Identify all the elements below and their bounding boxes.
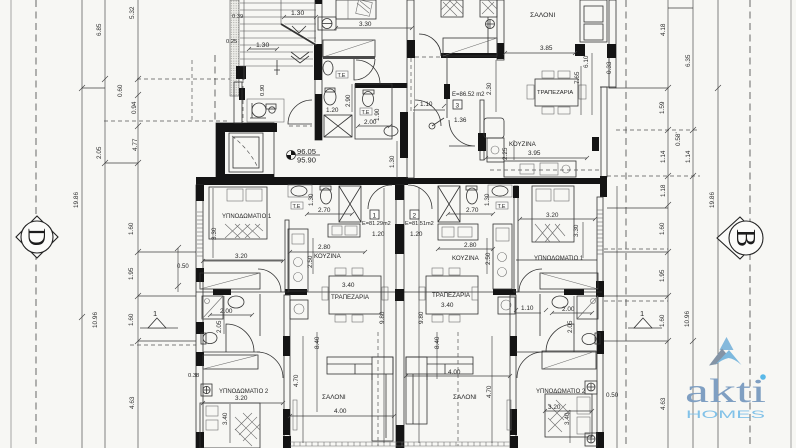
lower-right wardrobe side <box>585 381 597 394</box>
top-left unit bath fixtures <box>318 17 336 30</box>
svg-text:0.58': 0.58' <box>675 132 682 146</box>
svg-text:3.40: 3.40 <box>441 302 454 309</box>
svg-text:3.95: 3.95 <box>528 150 541 157</box>
level marker 96.05 <box>287 147 321 165</box>
wall bed2 right top <box>516 351 597 353</box>
dim vline 3.30 left <box>212 188 214 258</box>
node right dashed centerline <box>749 0 751 448</box>
wc1 sink <box>323 61 333 75</box>
party wall dashed opening <box>408 58 415 112</box>
upper kitchen counter horizontal <box>504 161 576 177</box>
wire left offset 0.50 line <box>177 248 179 292</box>
lower-left stove <box>290 300 308 319</box>
svg-text:3.40: 3.40 <box>222 412 229 425</box>
svg-text:1.59: 1.59 <box>659 101 666 114</box>
wheelchair symbol <box>250 103 276 118</box>
wall black party lower c <box>395 289 404 301</box>
svg-text:T.E: T.E <box>293 204 301 210</box>
lower-right bath toilet2 <box>582 333 600 345</box>
top mid bed2 hatched <box>480 0 497 17</box>
wire dashed axis top-left <box>137 78 244 80</box>
wall lower interior right vertical <box>510 295 516 448</box>
svg-text:2.80: 2.80 <box>464 242 477 249</box>
door arc lower-left bath <box>258 269 281 292</box>
lower-right bed1 <box>532 186 574 242</box>
door arc bed2 left <box>257 352 283 378</box>
svg-text:4.63: 4.63 <box>129 396 136 409</box>
lower-right toilet <box>466 186 478 204</box>
svg-text:T.E: T.E <box>362 110 370 116</box>
wire dashed axis right y176 <box>607 175 700 177</box>
lower-left shaft <box>339 186 361 222</box>
dim 2.70 left <box>307 207 352 214</box>
dashed threshold <box>289 125 312 127</box>
svg-text:akti: akti <box>685 373 766 410</box>
dim 8.40 right <box>434 332 441 379</box>
wall party upper double <box>407 0 414 178</box>
svg-text:0.50: 0.50 <box>177 264 189 270</box>
svg-text:2.50: 2.50 <box>307 255 314 268</box>
dim vline 2.25 upper <box>513 140 515 160</box>
svg-text:ΚΟΥΖΙΝΑ: ΚΟΥΖΙΝΑ <box>314 253 342 260</box>
marker B right <box>717 217 763 259</box>
wire left dim line 19.86 <box>81 0 83 448</box>
wall top mid bath right <box>497 0 504 60</box>
wire left dim line 6.85 <box>104 0 106 448</box>
stair landing rail <box>274 60 280 75</box>
top mid fixture circle cross <box>486 20 495 29</box>
svg-text:1.14: 1.14 <box>685 150 692 163</box>
wall black top mid <box>497 43 504 59</box>
dim vline 6.10 upper <box>591 53 593 115</box>
wall black wc2 top <box>355 83 412 88</box>
dim 2.80 left <box>290 244 365 252</box>
svg-text:4.70: 4.70 <box>486 385 493 398</box>
wall black lower right vb <box>510 409 517 435</box>
wall black elevator top <box>216 123 277 132</box>
stair arrow up <box>281 24 316 45</box>
svg-text:0.25: 0.25 <box>226 39 237 45</box>
door arc wc disabled <box>288 100 312 124</box>
svg-text:T.E: T.E <box>498 204 506 210</box>
door arc lower-left entry <box>368 185 392 209</box>
wall stair left textured strip <box>230 0 239 96</box>
svg-text:95.90: 95.90 <box>297 156 316 165</box>
svg-text:1.30: 1.30 <box>308 193 315 206</box>
svg-text:1.95: 1.95 <box>128 267 135 280</box>
svg-text:2.25: 2.25 <box>502 147 509 160</box>
wall bath left divider <box>259 294 261 336</box>
wall black elevator bottom <box>216 174 274 182</box>
door arc bed2 right <box>517 352 543 378</box>
dim 2.80 right <box>438 242 493 249</box>
wire dashed balcony edge top-left <box>242 79 244 122</box>
upper unit door arc2 <box>449 120 475 146</box>
elevator cab <box>229 133 263 172</box>
door arc lower-right bath <box>519 269 542 292</box>
wall top mid bottom black <box>441 53 503 58</box>
wire right dim line 6.35 <box>692 0 694 448</box>
svg-text:0.38: 0.38 <box>188 373 199 379</box>
wall elevator outline <box>216 123 274 182</box>
svg-text:1.10: 1.10 <box>521 305 534 312</box>
svg-text:1.14: 1.14 <box>660 150 667 163</box>
upper kitchen counter vertical <box>484 118 504 162</box>
upper unit door arc entry <box>415 100 441 126</box>
dim vline 2.90 wc <box>351 84 353 112</box>
top mid bed hatched <box>441 0 463 17</box>
wc2 te box <box>360 108 372 116</box>
top-left unit bed <box>336 0 376 19</box>
lower-left toilet <box>320 186 332 204</box>
svg-text:19.86: 19.86 <box>709 192 716 208</box>
lower-left bath toilet2 <box>201 333 217 345</box>
wall lower bath horizontal <box>196 291 602 293</box>
svg-text:8.40: 8.40 <box>314 336 321 349</box>
svg-text:1.30: 1.30 <box>256 42 269 49</box>
dim 8.40 left <box>314 332 321 412</box>
lower-left sofa L <box>327 357 393 441</box>
svg-text:2.05: 2.05 <box>216 320 223 333</box>
dim vline 9.80 left <box>383 188 385 443</box>
wall niche line <box>487 17 489 53</box>
dim vline 2.50 right <box>486 238 488 274</box>
wall black party lower d <box>396 425 404 448</box>
lower-right stove <box>498 297 515 314</box>
wire extension lines left <box>82 88 196 341</box>
lower-right kitchen top <box>438 224 478 240</box>
svg-text:3.85: 3.85 <box>540 45 553 52</box>
dim vline 3.30 right <box>582 222 584 258</box>
dim 1.10 right bath <box>516 305 541 313</box>
lower-left kitchen counter <box>288 229 308 291</box>
node dashed axis right salon <box>457 332 459 446</box>
dim 3.20 bed2 left <box>203 395 283 403</box>
dim 2.00 right bath <box>552 306 592 313</box>
lower-right te <box>496 202 508 210</box>
wall right edge lower <box>597 197 603 448</box>
wc1 shaft <box>324 115 352 137</box>
svg-text:3.40: 3.40 <box>342 282 355 289</box>
wall black seg stair right c <box>315 94 322 140</box>
wall main horizontal black band <box>196 177 408 185</box>
door arc right bath inner <box>546 324 574 352</box>
lower-right dining table <box>419 268 478 322</box>
wall black lower left vb <box>283 409 290 435</box>
lower-right sofa L <box>406 357 473 424</box>
wall black left lower d <box>196 352 204 366</box>
dim vline 9.80 right <box>418 188 420 443</box>
svg-text:3: 3 <box>456 103 460 110</box>
wall above elevator <box>234 82 242 123</box>
lower-right bed2 <box>545 394 592 437</box>
svg-text:19.86: 19.86 <box>73 192 80 208</box>
dim 3.20 bed2 right <box>545 404 592 411</box>
wc1 te box <box>336 71 348 79</box>
svg-text:2.00: 2.00 <box>220 308 233 315</box>
wheelchair wc box <box>247 99 284 122</box>
svg-text:1.60: 1.60 <box>659 314 666 327</box>
dim 2.00 wc <box>358 119 390 126</box>
door arc left bath inner <box>226 324 254 352</box>
svg-text:3.20: 3.20 <box>235 253 248 260</box>
wall black right edge mid <box>600 176 607 197</box>
lower-right kitchen counter <box>493 224 512 289</box>
dim vline 3.40 bed2 left <box>229 404 231 443</box>
wardrobe upper-left unit <box>323 40 375 57</box>
wire extension lines right <box>604 8 693 341</box>
svg-text:0.94: 0.94 <box>131 101 138 114</box>
wall black party upper a <box>407 40 415 58</box>
svg-text:1.60: 1.60 <box>128 222 135 235</box>
wall black seg stair left <box>236 66 246 79</box>
wall left edge lower <box>196 185 203 448</box>
lower-left te <box>291 202 303 210</box>
svg-text:2.05: 2.05 <box>96 146 103 159</box>
svg-text:7.65: 7.65 <box>574 71 581 84</box>
section marker 1 right <box>628 309 662 328</box>
svg-text:3.30: 3.30 <box>359 21 372 28</box>
svg-text:1.95: 1.95 <box>659 269 666 282</box>
elevator door dashes <box>232 136 258 168</box>
svg-text:2.30: 2.30 <box>486 82 493 95</box>
wall black left lower c <box>196 322 204 334</box>
upper unit sofa top <box>575 44 585 56</box>
svg-text:1.90: 1.90 <box>374 108 381 121</box>
wall kitchen-bed boundary left <box>285 220 289 292</box>
dim 4.00 right <box>406 369 510 376</box>
dim vline 4.70 left <box>302 336 304 443</box>
svg-text:1.30: 1.30 <box>291 10 304 17</box>
node dashed axis left salon <box>377 332 379 446</box>
svg-text:1.10: 1.10 <box>420 101 433 108</box>
svg-text:2.70: 2.70 <box>466 207 479 214</box>
svg-text:2.90: 2.90 <box>345 94 352 107</box>
svg-text:6.35: 6.35 <box>685 54 692 67</box>
wire dashed axis right y301 <box>604 300 668 302</box>
svg-text:ΥΠΝΟΔΩΜΑΤΙΟ 1: ΥΠΝΟΔΩΜΑΤΙΟ 1 <box>222 214 272 220</box>
node ticks right dim lines <box>665 85 721 344</box>
dim vline 2.50 left <box>312 238 314 274</box>
stair arrow chevron top <box>292 26 306 33</box>
wall bed2 left top <box>203 351 260 353</box>
svg-text:6.10: 6.10 <box>583 55 590 68</box>
svg-text:ΣΑΛΟΝΙ: ΣΑΛΟΝΙ <box>322 394 346 401</box>
svg-text:3.40: 3.40 <box>564 412 571 425</box>
door arc lower-right entry <box>408 185 432 209</box>
radiator left wall <box>201 384 212 396</box>
svg-text:Ε=86.52 m2: Ε=86.52 m2 <box>452 92 485 98</box>
svg-text:ΥΠΝΟΔΩΜΑΤΙΟ 2: ΥΠΝΟΔΩΜΑΤΙΟ 2 <box>536 389 586 395</box>
wall black party lower b <box>395 224 404 254</box>
svg-text:0.90: 0.90 <box>260 85 266 96</box>
wc2 walls <box>355 84 392 139</box>
wall black bath a <box>213 289 231 295</box>
wire left dim line 5.32 <box>137 0 139 448</box>
wall bedroom1 right bottom <box>516 259 597 261</box>
wall black seg stair right a <box>315 0 322 4</box>
lower-right shower <box>577 296 598 319</box>
wall black left lower b <box>196 268 204 282</box>
dim vline 2.05 left <box>223 296 225 334</box>
svg-text:9.80: 9.80 <box>418 311 425 324</box>
svg-text:3.20: 3.20 <box>546 212 559 219</box>
svg-text:0.39: 0.39 <box>232 14 243 20</box>
wall black upper kitchen <box>478 133 486 151</box>
wall black left lower a <box>196 185 204 201</box>
wall black bottom center b <box>510 436 518 448</box>
svg-text:ΤΡΑΠΕΖΑΡΙΑ: ΤΡΑΠΕΖΑΡΙΑ <box>331 294 370 301</box>
svg-text:4.00: 4.00 <box>448 369 461 376</box>
svg-text:5.32: 5.32 <box>129 6 136 19</box>
svg-text:10.96: 10.96 <box>92 312 99 328</box>
wall upper kitchen wall <box>480 100 484 160</box>
wall black party upper b <box>400 112 408 158</box>
dim 2.70 right <box>448 207 493 214</box>
svg-text:3.30: 3.30 <box>573 224 580 237</box>
wire right dim line 19.86 <box>717 0 719 448</box>
wall stair right <box>315 0 322 140</box>
dim 3.85 <box>505 45 575 53</box>
dim vline 7.65 upper <box>580 66 582 115</box>
wall party lower <box>396 185 404 448</box>
svg-text:10.96: 10.96 <box>684 311 691 327</box>
svg-text:8.40: 8.40 <box>434 336 441 349</box>
svg-text:1.20: 1.20 <box>372 231 385 238</box>
svg-text:HOMES: HOMES <box>686 409 765 421</box>
wire dashed axis left y121 <box>104 120 230 122</box>
svg-text:3.20: 3.20 <box>235 395 248 402</box>
dim 1.10 upper <box>413 101 445 110</box>
door arc upper left entry <box>354 59 375 80</box>
wall bottom balcony lines <box>290 441 510 443</box>
lower-left shower <box>202 296 223 319</box>
wall black right lower a <box>596 281 604 297</box>
svg-text:6.85: 6.85 <box>96 23 103 36</box>
svg-text:ΤΡΑΠΕΖΑΡΙΑ: ΤΡΑΠΕΖΑΡΙΑ <box>432 292 471 299</box>
dim 3.20 bed1 right <box>520 212 595 219</box>
svg-text:1.20: 1.20 <box>326 107 339 114</box>
wall black lower left va <box>283 336 290 356</box>
unit3 box <box>453 100 462 110</box>
dim vline 3.40 bed2 right <box>569 410 571 443</box>
dim vline 4.70 right <box>491 336 493 443</box>
wall black bath c <box>493 289 516 295</box>
wall kitchen-bed boundary right <box>514 186 518 292</box>
wall black right edge upper <box>607 44 616 58</box>
lower-right bath sink <box>488 185 512 197</box>
wire right dim line 4.18 <box>667 0 669 448</box>
lower-left wardrobe hatch <box>200 273 260 289</box>
svg-text:ΥΠΝΟΔΩΜΑΤΙΟ 1: ΥΠΝΟΔΩΜΑΤΙΟ 1 <box>534 256 584 262</box>
wire dashed axis right y130 <box>616 129 700 131</box>
lower-left bath sink2 <box>228 296 244 308</box>
svg-text:1.60: 1.60 <box>128 313 135 326</box>
tv bench right <box>507 400 511 430</box>
lower-left dining table <box>322 268 388 322</box>
svg-text:3.20: 3.20 <box>548 404 561 411</box>
dim vertical 1.30 center <box>389 141 397 178</box>
wall bedroom1 left bottom <box>203 259 283 261</box>
svg-text:1.30: 1.30 <box>389 155 396 168</box>
svg-text:1.20: 1.20 <box>410 231 423 238</box>
door arc top mid <box>419 34 441 56</box>
svg-text:1: 1 <box>153 309 157 318</box>
svg-text:4.00: 4.00 <box>334 408 347 415</box>
svg-text:D: D <box>23 228 50 246</box>
wall right jog <box>600 86 616 88</box>
wall right edge upper <box>609 0 616 88</box>
wall corridor right <box>446 56 448 118</box>
svg-text:0.60: 0.60 <box>117 84 124 97</box>
wire right overhang line <box>616 186 618 448</box>
wall black right lower c <box>596 432 604 448</box>
dim 4.00 left <box>290 408 394 416</box>
marker D left <box>16 216 58 258</box>
lower-left wardrobe2 <box>203 355 258 369</box>
lower-left unit bed1 <box>209 187 267 239</box>
svg-text:1.36: 1.36 <box>454 117 467 124</box>
svg-text:0.50: 0.50 <box>606 392 619 399</box>
svg-text:Ε=81.51m2: Ε=81.51m2 <box>405 221 434 227</box>
svg-text:2.50: 2.50 <box>485 252 492 265</box>
lower-right shaft <box>438 186 460 222</box>
wall right edge mid <box>601 87 607 177</box>
svg-text:1.30: 1.30 <box>484 193 491 206</box>
svg-text:4.77: 4.77 <box>132 138 139 151</box>
lower-right wardrobe2 <box>542 351 596 369</box>
node dashed vline x192 <box>191 60 193 121</box>
wall black right lower b <box>597 331 604 354</box>
svg-text:4.18: 4.18 <box>660 23 667 36</box>
lower-right bath sink2 <box>552 296 568 308</box>
svg-text:9.80: 9.80 <box>379 311 386 324</box>
node left axis dashed centerline <box>35 0 37 448</box>
svg-text:1: 1 <box>373 213 377 220</box>
wall bath right divider <box>539 294 541 336</box>
dim 2.00 left bath <box>210 308 252 315</box>
unit1 box <box>370 210 379 220</box>
door arc wc2 <box>356 60 380 84</box>
upper unit sofa right <box>580 0 607 42</box>
wall main horizontal right part <box>408 178 602 184</box>
svg-text:2.70: 2.70 <box>318 207 331 214</box>
svg-text:4.63: 4.63 <box>660 397 667 410</box>
node ticks left dim lines <box>79 76 181 344</box>
svg-text:3.30: 3.30 <box>211 227 218 240</box>
wc2 toilet <box>363 90 375 107</box>
dim vline 2.05 right <box>573 296 575 334</box>
top mid wardrobe <box>443 38 497 56</box>
upper dining table <box>527 71 586 114</box>
svg-text:Ε=81.29m2: Ε=81.29m2 <box>362 221 391 227</box>
node dashed axis kitchen <box>490 169 600 171</box>
wall black bottom center a <box>283 436 291 448</box>
svg-text:ΣΑΛΟΝΙ: ΣΑΛΟΝΙ <box>453 394 477 401</box>
node right axis dashed <box>625 0 627 448</box>
dim 3.95 <box>486 150 587 158</box>
node dim end ticks <box>201 15 597 418</box>
svg-text:B: B <box>731 229 761 247</box>
stair treads hatch <box>240 0 316 80</box>
svg-text:2: 2 <box>413 213 417 220</box>
svg-text:ΤΡΑΠΕΖΑΡΙΑ: ΤΡΑΠΕΖΑΡΙΑ <box>537 90 573 96</box>
wc1 toilet <box>324 88 336 105</box>
balcony railing bottom <box>294 442 504 446</box>
wall black party lower a <box>395 185 404 200</box>
svg-text:1.18: 1.18 <box>660 184 667 197</box>
tv bench left <box>293 400 297 430</box>
